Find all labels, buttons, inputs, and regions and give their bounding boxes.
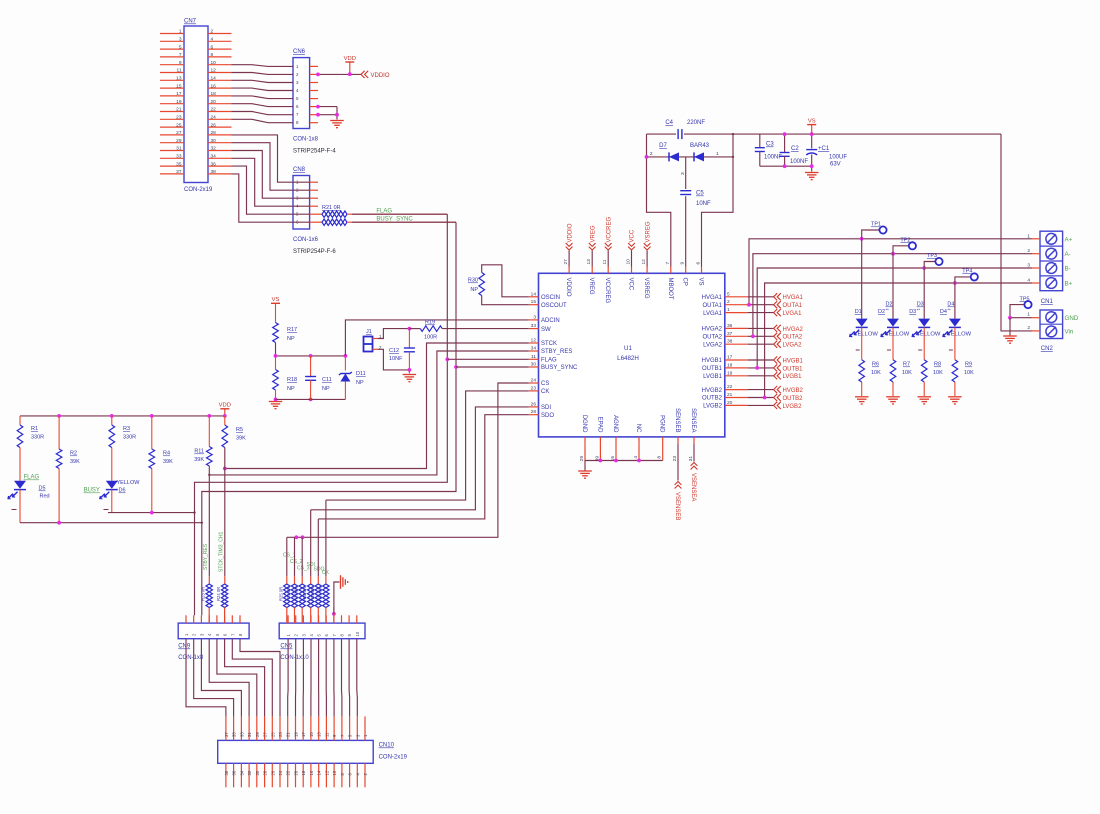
- resistor R21 0R: [318, 213, 322, 215]
- svg-text:SDO: SDO: [541, 413, 554, 419]
- pin 24 CS U1: [529, 382, 539, 384]
- pin 32 CN10 bottom stub: [248, 763, 250, 787]
- pin 1 CN6 stub: [310, 65, 318, 67]
- pin 37 CN10 top stub: [225, 716, 227, 740]
- svg-text:39K: 39K: [70, 459, 80, 465]
- svg-text:CK: CK: [541, 389, 549, 395]
- pin 10 CN7 right stub: [208, 64, 232, 66]
- net label VDDIO: [361, 71, 365, 78]
- pin 12 CN10 bottom stub: [325, 763, 327, 787]
- svg-text:+C1: +C1: [818, 146, 830, 152]
- jumper J1: [364, 337, 373, 352]
- svg-text:17: 17: [727, 355, 733, 361]
- svg-text:100NF: 100NF: [790, 159, 808, 165]
- svg-text:D7: D7: [659, 143, 667, 149]
- svg-text:30: 30: [255, 770, 260, 775]
- pin 35 CN10 top stub: [233, 716, 235, 740]
- ground: [918, 396, 932, 398]
- svg-text:D4: D4: [940, 309, 947, 315]
- svg-text:FLAG: FLAG: [376, 208, 392, 214]
- pin 4 CN7 right stub: [208, 40, 232, 42]
- ground at R18: [269, 401, 282, 403]
- wire VS to Vin: [1001, 134, 1032, 331]
- svg-text:OUTB2: OUTB2: [702, 396, 723, 402]
- resistor R9 10K: [952, 360, 958, 382]
- wire bottom rail: [276, 398, 346, 400]
- svg-text:**: **: [886, 308, 890, 313]
- wire LED resistor to ground: [923, 382, 925, 396]
- pin 7 CN5 stub: [333, 615, 335, 623]
- svg-text:8: 8: [211, 52, 214, 58]
- svg-text:YELLOW: YELLOW: [854, 332, 879, 338]
- svg-text:27: 27: [176, 130, 182, 136]
- svg-text:STRIP254P-F-6: STRIP254P-F-6: [293, 249, 336, 255]
- svg-text:BUSY_SYNC: BUSY_SYNC: [541, 365, 578, 371]
- pin 14 CN10 bottom stub: [318, 763, 320, 787]
- pin 20 LVGB2 U1: [725, 404, 748, 406]
- pin 6 CN6 stub: [310, 106, 318, 108]
- pin 11 VCCREG U1: [607, 267, 609, 274]
- resistor R27 0R: [301, 537, 303, 576]
- tick at D5 cathode: [12, 509, 17, 511]
- wire CN6 pin2 to VDDIO: [318, 73, 361, 75]
- svg-text:R30: R30: [468, 278, 478, 284]
- pin 36 CN10 bottom stub: [233, 763, 235, 787]
- svg-text:OUTA1: OUTA1: [783, 303, 803, 309]
- svg-text:VDDIO: VDDIO: [371, 73, 390, 79]
- pin 21 CN10 top stub: [287, 716, 289, 740]
- pin 38 CN7 right stub: [208, 173, 232, 175]
- ground at C12: [408, 370, 410, 374]
- svg-text:TP3: TP3: [927, 253, 937, 259]
- pin 23 CN10 top stub: [279, 716, 281, 740]
- resistor R24 0R: [224, 576, 226, 584]
- svg-text:30: 30: [531, 362, 537, 368]
- pin 10 CN5 stub: [356, 615, 358, 623]
- svg-text:VS: VS: [272, 297, 280, 303]
- wire to net OUTA2: [748, 335, 774, 337]
- svg-text:10NF: 10NF: [389, 356, 403, 362]
- pin 8 CN10 bottom stub: [341, 763, 343, 787]
- net label HVGA1: [774, 293, 778, 300]
- pin 23 CN7 left stub: [160, 118, 184, 120]
- pin 1 CN8 stub: [310, 181, 318, 183]
- svg-text:VDD: VDD: [344, 56, 356, 62]
- resistor R19 100R: [409, 328, 420, 330]
- pin 29 CN7 left stub: [160, 142, 184, 144]
- svg-text:OSCIN: OSCIN: [541, 295, 560, 301]
- wire MBOOT branch: [647, 134, 671, 266]
- LED D3 YELLOW: [923, 268, 925, 319]
- pin 10 CN10 bottom stub: [333, 763, 335, 787]
- wire CN7 to CN6 bus: [232, 65, 294, 123]
- svg-text:U1: U1: [624, 345, 632, 352]
- svg-text:24: 24: [278, 770, 283, 775]
- svg-text:CP: CP: [682, 278, 688, 286]
- net label LVGB2: [774, 402, 778, 409]
- svg-text:D3: D3: [909, 309, 916, 315]
- svg-text:15: 15: [309, 732, 314, 737]
- svg-text:36: 36: [232, 770, 237, 775]
- net label LVGB1: [774, 372, 778, 379]
- net label VSREG power arrow: [646, 251, 648, 267]
- pin 16 AGND U1: [615, 437, 617, 444]
- LED D4 YELLOW: [954, 283, 956, 319]
- net label VCCREG power arrow: [607, 251, 609, 267]
- svg-text:28: 28: [263, 770, 268, 775]
- svg-text:27: 27: [563, 259, 569, 265]
- ground: [855, 396, 869, 398]
- svg-text:3: 3: [1027, 263, 1030, 269]
- svg-text:37: 37: [224, 732, 229, 737]
- wire top supply rail: [647, 133, 677, 135]
- wire R30 to OSCIN: [482, 265, 529, 297]
- svg-text:39K: 39K: [163, 459, 173, 465]
- svg-text:TP5: TP5: [1020, 296, 1030, 302]
- pin 33 CN7 left stub: [160, 157, 184, 159]
- pin 22 CN10 bottom stub: [287, 763, 289, 787]
- test point TP3: [924, 262, 935, 269]
- svg-text:LVGB1: LVGB1: [783, 374, 803, 380]
- svg-text:18: 18: [211, 91, 217, 97]
- pin 1 CN9 stub: [185, 615, 187, 623]
- svg-text:D5: D5: [39, 486, 46, 492]
- svg-text:YELLOW: YELLOW: [947, 332, 972, 338]
- svg-text:25: 25: [176, 122, 182, 128]
- net label HVGB2: [774, 386, 778, 393]
- svg-text:24: 24: [211, 115, 217, 121]
- pin 4 CN9 stub: [208, 615, 210, 623]
- svg-text:B+: B+: [1065, 281, 1073, 288]
- svg-text:Red: Red: [40, 494, 50, 500]
- ground below DGND: [584, 461, 586, 471]
- svg-text:20: 20: [211, 99, 217, 105]
- resistor R30 NP: [479, 273, 485, 296]
- svg-text:R3: R3: [123, 426, 130, 432]
- junction: [223, 467, 227, 471]
- svg-text:23: 23: [176, 115, 182, 121]
- wire BUSY rail1: [20, 522, 202, 524]
- wire J1 pin2 to C12 bottom: [378, 349, 409, 370]
- capacitor C2 100NF: [784, 134, 786, 152]
- LED D6 YELLOW BUSY: [111, 448, 113, 481]
- pin 16 CN10 bottom stub: [310, 763, 312, 787]
- svg-text:26: 26: [211, 122, 217, 128]
- svg-text:STCK_TIM3_CH1: STCK_TIM3_CH1: [219, 531, 225, 572]
- wire to net HVGA1: [748, 296, 774, 298]
- svg-text:NP: NP: [287, 386, 295, 392]
- wire to net LVGA1: [748, 312, 774, 314]
- pin 25 CN7 left stub: [160, 126, 184, 128]
- svg-text:OUTA2: OUTA2: [783, 335, 803, 341]
- net label OUTB2: [774, 394, 778, 401]
- pin 33 SW U1: [529, 328, 539, 330]
- svg-text:12: 12: [324, 770, 329, 775]
- svg-text:19: 19: [294, 732, 299, 737]
- svg-text:2: 2: [650, 151, 653, 157]
- svg-text:DGND: DGND: [581, 415, 587, 433]
- svg-text:2: 2: [1027, 325, 1030, 331]
- svg-text:21: 21: [727, 392, 733, 398]
- wire TP5 to GND: [1010, 317, 1032, 319]
- LED D1 YELLOW: [861, 239, 863, 319]
- svg-text:VCCREG: VCCREG: [604, 278, 610, 304]
- wire B- motor output: [757, 268, 1032, 368]
- wire LED resistor to ground: [954, 382, 956, 396]
- net label OUTB1: [774, 364, 778, 371]
- svg-text:LVGA1: LVGA1: [783, 311, 803, 317]
- wire CN9 to CN10 staircase: [186, 639, 280, 717]
- pin 15 CN7 left stub: [160, 87, 184, 89]
- svg-text:VCCREG: VCCREG: [606, 216, 612, 242]
- pin 16 CN7 right stub: [208, 87, 232, 89]
- svg-text:OUTB2: OUTB2: [783, 396, 804, 402]
- pin 35 CN7 left stub: [160, 165, 184, 167]
- wire to net OUTB2: [748, 397, 774, 399]
- capacitor C4 220NF: [677, 129, 679, 139]
- LED D5 Red FLAG: [19, 448, 21, 481]
- wire B+ motor output: [765, 283, 1032, 398]
- pin 4 CN5 stub: [310, 615, 312, 623]
- pin 5 CN7 left stub: [160, 48, 184, 50]
- svg-text:35: 35: [176, 161, 182, 167]
- pin 1 CN2 GND: [1032, 317, 1040, 319]
- svg-text:37: 37: [727, 331, 733, 337]
- svg-text:29: 29: [255, 732, 260, 737]
- pin 17 HVGB1 U1: [725, 359, 748, 361]
- junction: [599, 459, 603, 463]
- junction: [316, 73, 320, 77]
- wire ADCIN: [345, 320, 528, 356]
- svg-text:Vin: Vin: [1065, 328, 1074, 335]
- pin 2 OUTA1 U1: [725, 304, 748, 306]
- junction: [274, 354, 278, 358]
- power VS at R17: [271, 302, 280, 304]
- svg-text:FLAG: FLAG: [24, 475, 40, 481]
- pin 6 CN7 right stub: [208, 48, 232, 50]
- wire mid rail: [276, 355, 346, 357]
- junction: [763, 396, 767, 400]
- pin 38 LVGA2 U1: [725, 343, 748, 345]
- svg-text:CS_1: CS_1: [283, 553, 296, 559]
- svg-text:VREG: VREG: [590, 225, 596, 242]
- svg-text:12: 12: [531, 338, 537, 344]
- pin 34 STBY_RES U1: [529, 350, 539, 352]
- pin 23 CK U1: [529, 390, 539, 392]
- svg-text:L6482H: L6482H: [617, 355, 639, 362]
- svg-text:NP: NP: [356, 380, 364, 386]
- pin 5 CN8 stub: [310, 213, 318, 215]
- svg-text:20: 20: [727, 400, 733, 406]
- pin 6 CN10 bottom stub: [349, 763, 351, 787]
- svg-text:10: 10: [355, 631, 360, 636]
- pin 4 CN8 stub: [310, 205, 318, 207]
- svg-text:C11: C11: [322, 377, 332, 383]
- svg-text:VDDIO: VDDIO: [567, 223, 573, 242]
- svg-text:7: 7: [665, 262, 671, 265]
- svg-text:9: 9: [179, 60, 182, 66]
- test point TP2: [893, 246, 909, 254]
- pin 17 CN10 top stub: [302, 716, 304, 740]
- pin 23 SENSEB U1: [677, 437, 679, 444]
- svg-text:CON-2x19: CON-2x19: [379, 755, 408, 761]
- svg-text:26: 26: [531, 401, 537, 407]
- svg-text:20: 20: [294, 770, 299, 775]
- svg-text:19: 19: [176, 99, 182, 105]
- svg-text:11: 11: [531, 354, 536, 360]
- svg-text:VDDIO: VDDIO: [565, 278, 571, 297]
- svg-text:VCC: VCC: [630, 229, 636, 242]
- pin 2 CN6 stub: [310, 73, 318, 75]
- pin 1 CN5 stub: [287, 615, 289, 623]
- connector CN8 CON-1x6 STRIP254P-F-6: [293, 176, 310, 230]
- pin 1 CN7 left stub: [160, 33, 184, 35]
- svg-text:3: 3: [680, 172, 686, 175]
- svg-text:29: 29: [176, 138, 182, 144]
- svg-text:R25 0R: R25 0R: [278, 587, 283, 601]
- power VDD at LED block: [220, 408, 229, 410]
- svg-text:30: 30: [211, 138, 217, 144]
- svg-text:27: 27: [263, 732, 268, 737]
- pin 2 CN10 bottom stub: [364, 763, 366, 787]
- pin 4 CN1 stub: [1032, 282, 1040, 284]
- pin 3 CN5 stub: [302, 615, 304, 623]
- pin 4 NC U1: [638, 437, 640, 444]
- pin 8 CN9 stub: [239, 615, 241, 623]
- svg-text:1: 1: [179, 29, 182, 35]
- pin 31 CN10 top stub: [248, 716, 250, 740]
- net label LVGA2: [774, 341, 778, 348]
- svg-text:31: 31: [688, 456, 694, 462]
- pin 25 CN10 top stub: [271, 716, 273, 740]
- svg-text:32: 32: [211, 146, 217, 152]
- svg-text:R21 0R: R21 0R: [322, 205, 341, 211]
- pin 3 CN7 left stub: [160, 40, 184, 42]
- junction: [747, 303, 751, 307]
- svg-text:VS: VS: [808, 118, 816, 124]
- pin 5 HVGA1 U1: [725, 296, 748, 298]
- svg-text:22: 22: [286, 770, 291, 775]
- svg-text:SENSEA: SENSEA: [690, 408, 696, 432]
- pin 22 CN7 right stub: [208, 111, 232, 113]
- pin 19 CN10 top stub: [295, 716, 297, 740]
- pin 32 CN7 right stub: [208, 150, 232, 152]
- svg-text:D2: D2: [878, 309, 885, 315]
- svg-text:R6: R6: [872, 362, 879, 368]
- pin 31 SENSEA U1: [693, 437, 695, 444]
- pin 21 CN7 left stub: [160, 111, 184, 113]
- svg-text:HVGA1: HVGA1: [702, 295, 723, 301]
- wire BUSY_SYNC net vertical: [202, 222, 456, 523]
- test point TP4: [955, 277, 971, 283]
- svg-text:25: 25: [270, 732, 275, 737]
- pin 12 CN7 right stub: [208, 72, 232, 74]
- svg-text:35: 35: [232, 732, 237, 737]
- svg-text:EPAD: EPAD: [596, 417, 602, 434]
- svg-text:LVGA1: LVGA1: [703, 311, 723, 317]
- pin 36 CN7 right stub: [208, 165, 232, 167]
- pin 29 DGND U1: [584, 437, 586, 444]
- svg-text:18: 18: [301, 770, 306, 775]
- svg-text:YELLOW: YELLOW: [885, 332, 910, 338]
- svg-text:13: 13: [176, 76, 182, 82]
- wire to net OUTB1: [748, 367, 774, 369]
- svg-text:HVGB2: HVGB2: [783, 388, 804, 394]
- svg-text:CON-1x6: CON-1x6: [293, 237, 319, 243]
- wire to net HVGA2: [748, 327, 774, 329]
- net label OUTA1: [774, 301, 778, 308]
- wire R30 to OSCOUT: [482, 296, 529, 305]
- wire STCK net: [225, 343, 529, 469]
- svg-text:12: 12: [211, 68, 217, 74]
- pin 24 CN10 bottom stub: [279, 763, 281, 787]
- wire VDD rail: [20, 415, 225, 417]
- net label VREG power arrow: [591, 251, 593, 267]
- svg-text:13: 13: [317, 732, 322, 737]
- resistor R8 10K: [921, 360, 927, 382]
- pin 21 OUTB2 U1: [725, 397, 748, 399]
- svg-text:CN9: CN9: [178, 644, 191, 650]
- pin 30 CN10 bottom stub: [256, 763, 258, 787]
- wire SENSEB: [677, 444, 679, 481]
- capacitor C5 10NF: [685, 157, 687, 189]
- test point TP1: [862, 230, 880, 239]
- wire CN5 to CN10 bus: [288, 639, 358, 717]
- svg-text:HVGA2: HVGA2: [702, 327, 723, 333]
- svg-text:FLAG: FLAG: [541, 358, 557, 364]
- svg-text:C5: C5: [696, 191, 704, 197]
- svg-text:220NF: 220NF: [687, 120, 705, 126]
- pin 1 CN10 top stub: [364, 716, 366, 740]
- net label HVGB1: [774, 356, 778, 363]
- connector CN9 CON-1x8: [178, 623, 249, 639]
- pin 5 CN10 top stub: [349, 716, 351, 740]
- pin 33 CN10 top stub: [240, 716, 242, 740]
- svg-text:18: 18: [727, 362, 733, 368]
- wire to net HVGB2: [748, 389, 774, 391]
- svg-text:10NF: 10NF: [696, 201, 711, 207]
- pin 19 LVGB1 U1: [725, 375, 748, 377]
- svg-text:11: 11: [324, 732, 329, 737]
- pin 6 VS U1: [701, 267, 703, 274]
- svg-text:CN2: CN2: [1041, 346, 1054, 352]
- svg-text:15: 15: [176, 83, 182, 89]
- pin 7 MBOOT U1: [670, 267, 672, 274]
- pin 20 CN10 bottom stub: [295, 763, 297, 787]
- test point TP5: [1024, 301, 1031, 308]
- svg-text:R28 0R: R28 0R: [302, 587, 307, 601]
- svg-text:1: 1: [727, 307, 730, 313]
- pin 9 CN7 left stub: [160, 64, 184, 66]
- net label HVGA2: [774, 325, 778, 332]
- svg-text:LVGB2: LVGB2: [783, 404, 803, 410]
- svg-text:C12: C12: [389, 348, 399, 354]
- pin 17 CN7 left stub: [160, 95, 184, 97]
- pin 26 SDI U1: [529, 406, 539, 408]
- svg-text:36: 36: [727, 323, 733, 329]
- svg-text:OUTB1: OUTB1: [783, 366, 804, 372]
- svg-text:22: 22: [727, 384, 733, 390]
- pin 28 CN10 bottom stub: [264, 763, 266, 787]
- pin 26 CN7 right stub: [208, 126, 232, 128]
- junction: [57, 414, 61, 418]
- svg-text:10: 10: [211, 60, 217, 66]
- svg-text:YELLOW: YELLOW: [916, 332, 941, 338]
- pin 13 CN10 top stub: [318, 716, 320, 740]
- pin 22 HVGB2 U1: [725, 389, 748, 391]
- svg-text:R26 0R: R26 0R: [286, 587, 291, 601]
- svg-text:HVGB1: HVGB1: [702, 358, 723, 364]
